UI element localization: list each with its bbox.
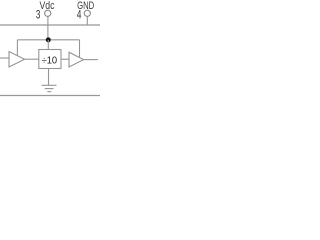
wire: divider to amp 2	[61, 58, 69, 60]
svg-text:÷10: ÷10	[42, 56, 58, 67]
ground symbol	[42, 85, 57, 91]
divider block U1	[39, 50, 61, 69]
wire: divider down to ground	[48, 69, 50, 86]
wire: bottom rail	[0, 95, 100, 97]
op-amp buffer A1 (input amplifier)	[9, 52, 25, 68]
op-amp buffer A2 (output amplifier)	[69, 52, 84, 67]
wire: top ground rail	[0, 24, 100, 26]
svg-text:4: 4	[77, 9, 82, 22]
junction dot	[46, 37, 51, 42]
wire: right power drop to amp 2	[79, 40, 81, 58]
wire: Vdc pin down to junction	[47, 17, 49, 41]
wire: output to right edge	[84, 59, 98, 61]
svg-text:3: 3	[36, 9, 41, 22]
pin terminal circle (GND, pin 4)	[84, 10, 90, 16]
wire: left power drop to amp 1	[16, 40, 18, 56]
wire: junction down to divider box	[47, 40, 49, 50]
wire: input from left edge	[0, 57, 9, 59]
pin terminal circle (Vdc, pin 3)	[45, 10, 51, 16]
wire: Vdc power rail (horizontal)	[17, 39, 79, 41]
wire: GND pin down to top rail	[86, 17, 88, 26]
wire: amp 1 output to divider	[25, 58, 39, 60]
background	[0, 0, 100, 100]
